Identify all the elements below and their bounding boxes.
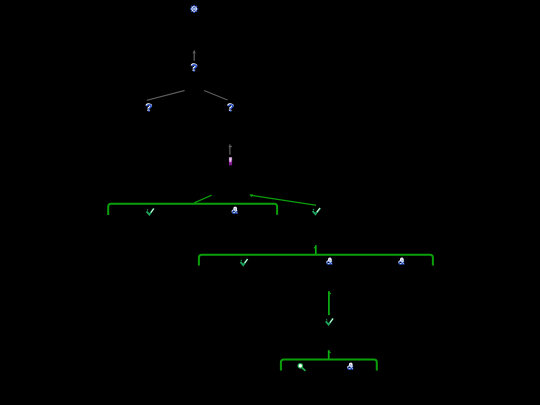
- edge: green diagonal with arrowhead from check2 up-left toward purple node: [249, 194, 316, 205]
- edge: arrow up from node ?1 to gear: [193, 50, 196, 61]
- node: ampersand B (in bracket 2): [326, 258, 332, 265]
- node: check2 (right of bracket 1): [313, 208, 321, 214]
- edge: diagonal from ?1 to right ?3: [204, 91, 228, 101]
- node: ?3 (right question mark): [227, 103, 234, 112]
- node: ampersand A (in bracket 1): [232, 207, 238, 214]
- bracket: group 1 (children of purple node): [108, 204, 277, 215]
- bracket: group 3 (children of check4): [281, 360, 377, 371]
- edge: arrow up from purple node to ?3: [228, 144, 232, 155]
- edge: green stub with arrow from bracket2 up to check2: [314, 245, 316, 255]
- bracket: group 2 (children of check2 region): [199, 255, 433, 266]
- node: gear icon (root): [190, 5, 199, 14]
- node: ?1 (center question mark): [191, 63, 198, 72]
- node: check1 (in bracket 1): [147, 208, 154, 214]
- edge: green stub with arrow from bracket3 up to check4: [329, 350, 331, 359]
- node: check3 (in bracket 2): [240, 259, 247, 265]
- node: ampersand C (in bracket 2): [398, 258, 404, 265]
- node: ampersand D (in bracket 3): [347, 363, 353, 370]
- node: purple bar I: [229, 157, 232, 165]
- edge: long green arrow from check4 up toward bracket2: [329, 291, 331, 315]
- edge: diagonal from ?1 to left ?2: [147, 91, 185, 101]
- node: ?2 (left question mark): [145, 103, 152, 112]
- node: magnifier icon (in bracket 3): [298, 364, 305, 371]
- node: check4: [326, 318, 333, 324]
- edge: green diagonal from bracket1 up-right toward purple node: [194, 195, 211, 203]
